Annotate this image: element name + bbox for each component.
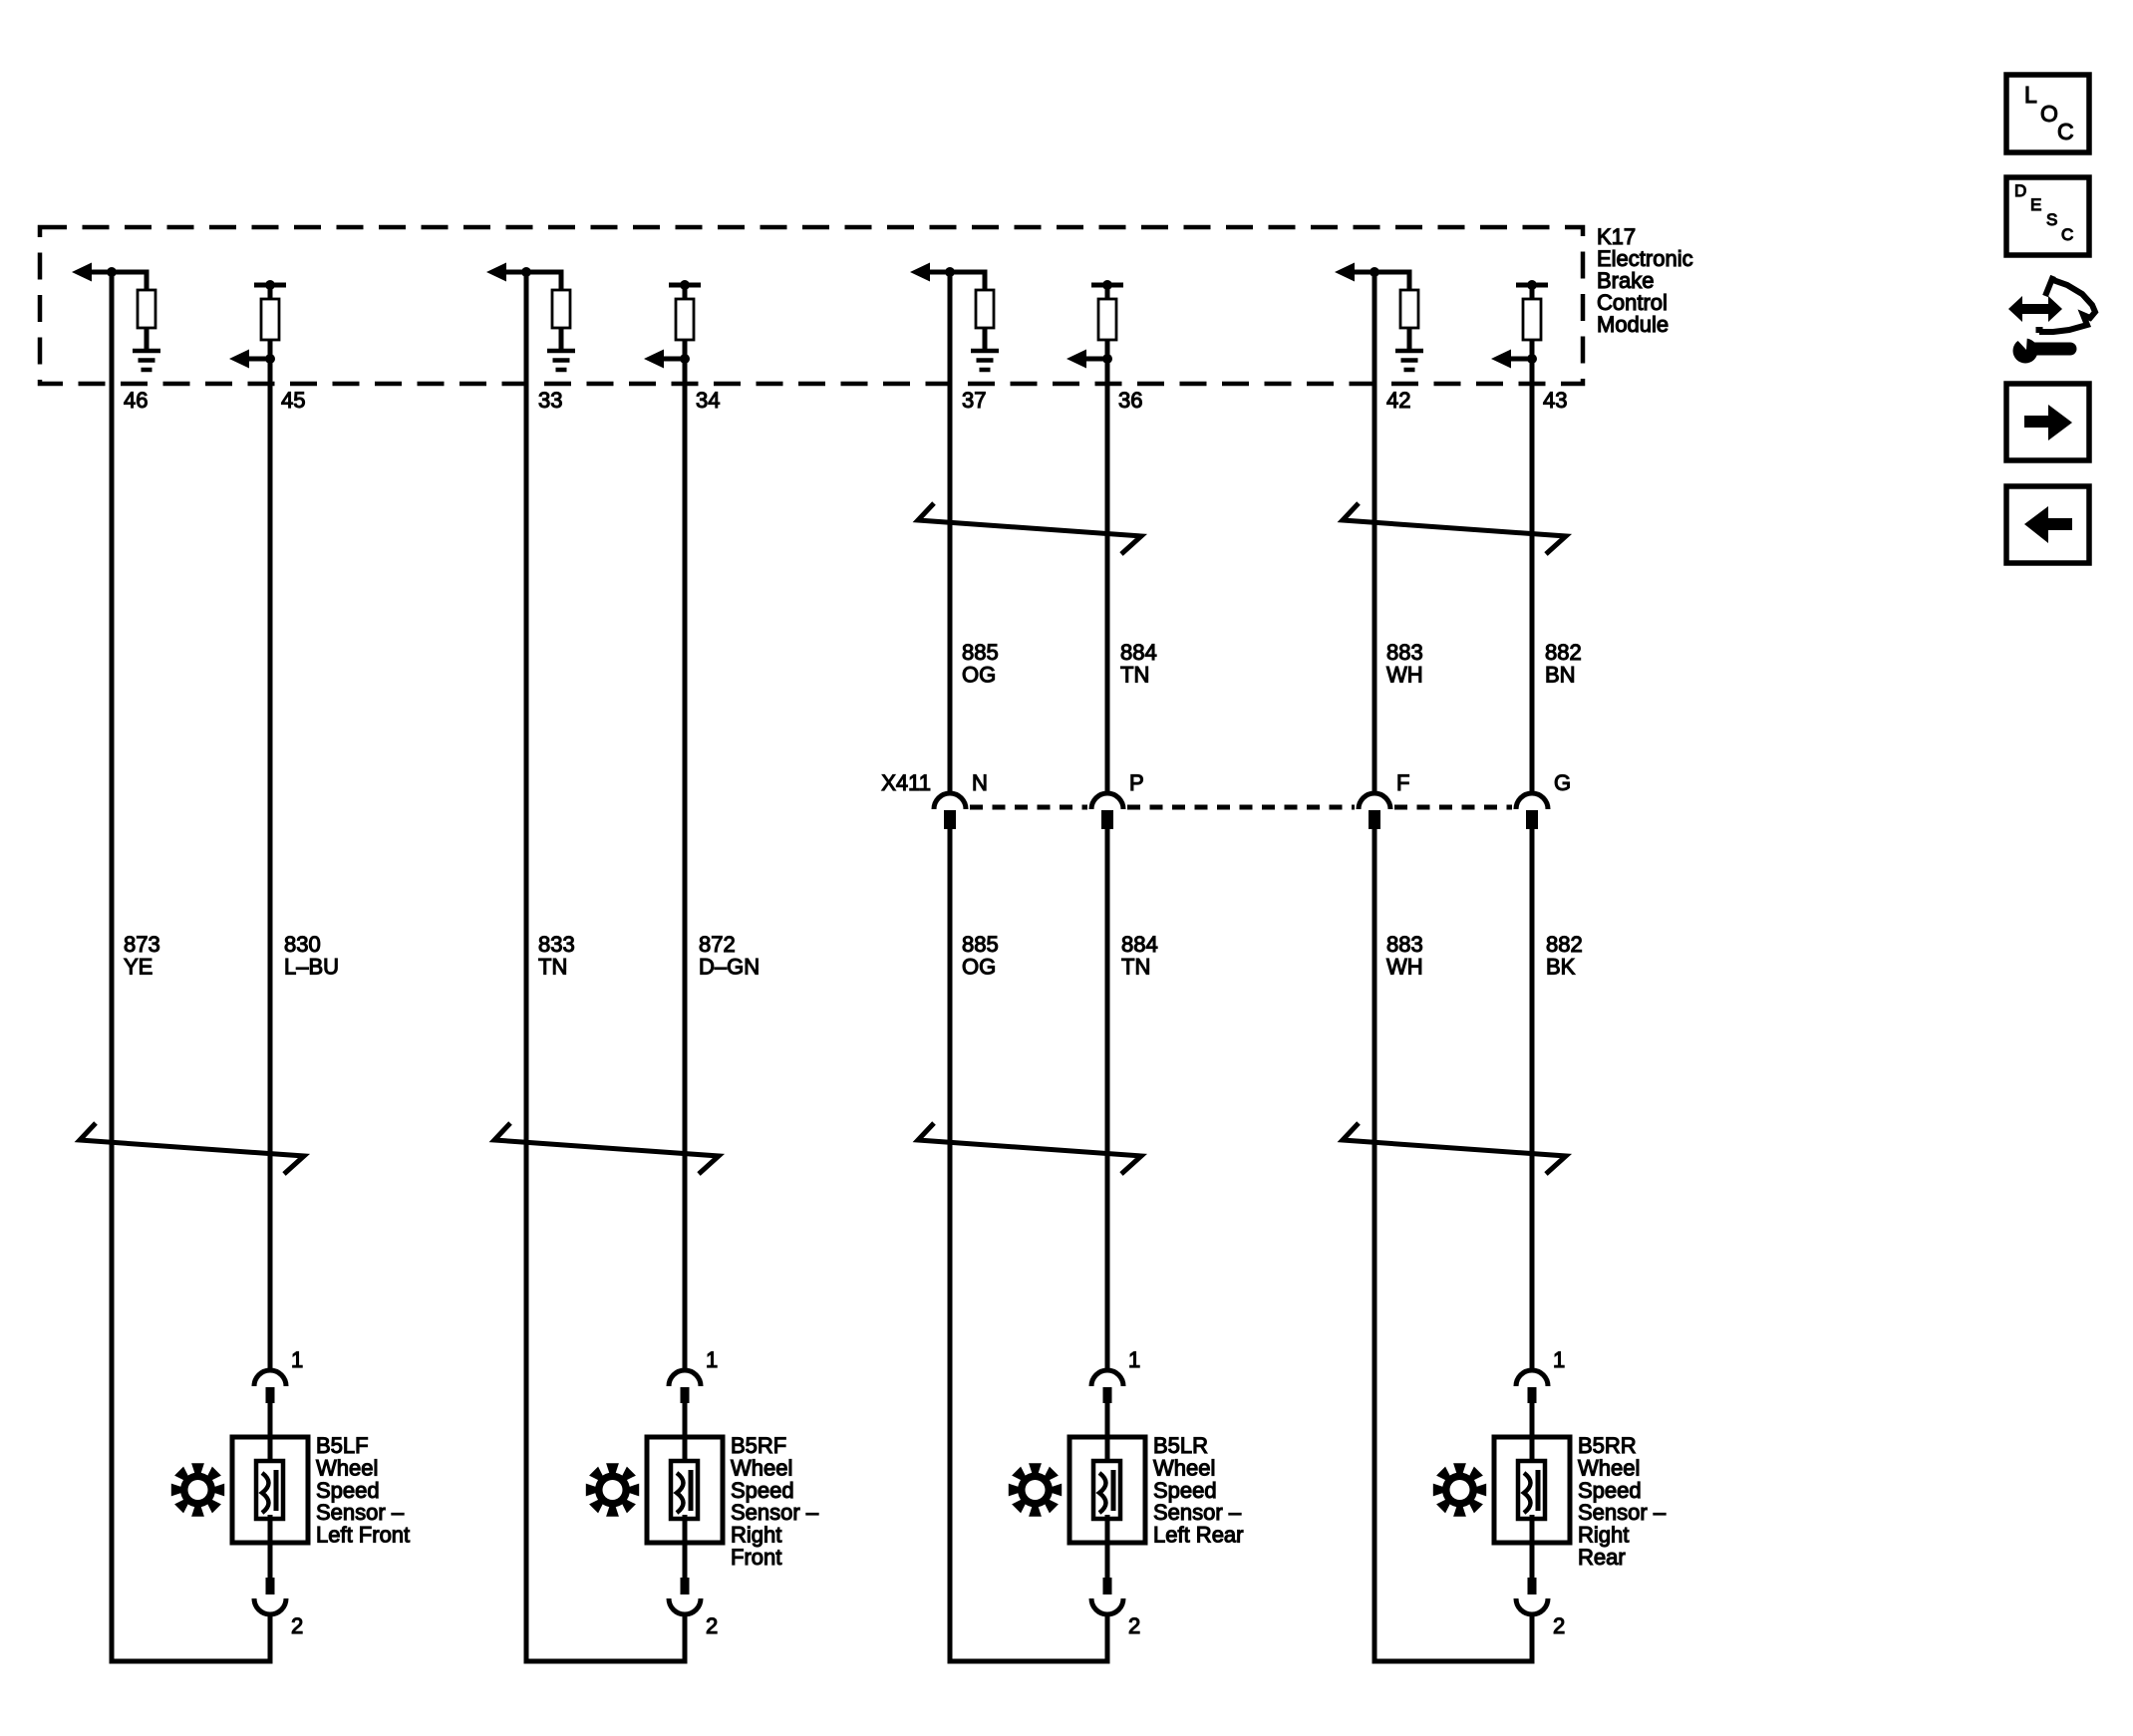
svg-text:Right: Right [731,1523,781,1548]
connector pin 1 of B5RR [1516,1370,1548,1403]
svg-text:2: 2 [1128,1613,1140,1638]
wire pin2 down B5RR [1530,1612,1535,1661]
signal arrow out, pin 33 [486,263,526,282]
twisted-pair mark (lower) [1343,1123,1566,1174]
wire to resistor, pin 42 branch [1374,272,1409,290]
wire 884 TN upper segment (pin 36 to X411) [1105,359,1110,794]
junction dot pin 36 [1102,354,1112,364]
twisted-pair mark (upper) [1343,503,1566,554]
svg-text:YE: YE [124,955,152,980]
sensor B5RR box [1494,1437,1570,1543]
pin label 2 of B5LR [1128,1613,1140,1638]
electronic brake control module K17 dashed box [40,227,1583,384]
wire sensor to pin2 B5LF [268,1515,273,1578]
svg-text:1: 1 [291,1347,303,1372]
svg-text:Wheel: Wheel [1153,1455,1215,1480]
junction dot pin 43 [1527,354,1537,364]
wire label 884 TN (lower) [1121,932,1158,980]
resistor R37 [976,290,994,328]
signal arrow out, pin 46 [72,263,112,282]
sensor label B5LF [316,1433,410,1548]
svg-text:O: O [2040,101,2058,127]
signal arrow out, pin 42 [1335,263,1374,282]
sensor element of B5LR [1093,1461,1120,1519]
wire pin2 down B5LR [1105,1612,1110,1661]
pin number 42 [1386,388,1410,413]
connector pin 2 of B5LR [1091,1578,1123,1614]
pin label 2 of B5LF [291,1613,303,1638]
pin label 1 of B5LF [291,1347,303,1372]
bottom return wire of B5LR [948,1659,1110,1664]
pin number 43 [1543,388,1567,413]
svg-text:2: 2 [706,1613,718,1638]
pin number 34 [696,388,720,413]
wire terminal to resistor, pin 34 branch [683,285,688,299]
wire sensor to pin2 B5RR [1530,1515,1535,1578]
ground (pin 46 branch) [133,351,160,370]
connector X411 terminal G [1516,793,1548,829]
signal arrow in, pin 45 [229,350,270,369]
signal arrow in, pin 43 [1491,350,1532,369]
wire terminal to resistor, pin 43 branch [1530,285,1535,299]
wire pin2 down B5LF [268,1612,273,1661]
wire 833 TN (pin 33 to sensor loop) [524,272,529,1664]
wire 884 TN lower segment (X411 to sensor) [1105,829,1110,1372]
pin number 37 [962,388,986,413]
wire terminal to resistor, pin 36 branch [1105,285,1110,299]
wire 882 BK upper segment (pin 43 to X411) [1530,359,1535,794]
wire label 872 D–GN (lower) [699,932,760,980]
svg-text:TN: TN [1120,663,1149,688]
svg-text:45: 45 [281,388,305,413]
bottom return wire of B5RR [1372,1659,1535,1664]
icon arrow left box [2006,486,2089,563]
connector X411 terminal P [1091,793,1123,829]
wire pin1 to sensor B5RF [683,1402,688,1465]
svg-text:Front: Front [731,1545,781,1570]
svg-text:OG: OG [962,663,996,688]
gear icon of B5RF [586,1463,639,1516]
wire 872 D–GN (pin 34 to sensor) [683,359,688,1372]
svg-text:B5LF: B5LF [316,1433,369,1458]
wire pin2 down B5RF [683,1612,688,1661]
pin number 46 [124,388,148,413]
wire 885 OG lower segment (X411 to sensor loop) [948,829,953,1664]
svg-text:C: C [2057,119,2074,145]
wire resistor to ground, pin 33 branch [559,328,564,351]
module K17 label [1597,224,1693,337]
svg-text:WH: WH [1386,955,1423,980]
wire resistor to ground, pin 42 branch [1407,328,1412,351]
svg-text:S: S [2046,210,2057,229]
wire resistor to junction, pin 36 branch [1105,340,1110,359]
sensor element of B5RF [671,1461,698,1519]
junction dot pin 33 [521,267,531,277]
connector pin 2 of B5LF [254,1578,286,1614]
svg-text:G: G [1554,770,1571,795]
svg-text:F: F [1396,770,1409,795]
icon arrow right box [2006,384,2089,460]
wire pin1 to sensor B5RR [1530,1402,1535,1465]
wire terminal to resistor, pin 45 branch [268,285,273,299]
pin number 36 [1118,388,1142,413]
sensor element of B5RR [1518,1461,1545,1519]
signal arrow in, pin 34 [644,350,685,369]
resistor R33 [552,290,570,328]
svg-text:883: 883 [1386,640,1423,665]
twisted-pair mark (upper) [918,503,1141,554]
resistor R45 [261,299,279,340]
svg-text:C: C [2061,225,2073,244]
svg-text:Right: Right [1578,1523,1629,1548]
wire 882 BK lower segment (X411 to sensor) [1530,829,1535,1372]
connector X411 terminal F [1359,793,1390,829]
pin label 1 of B5LR [1128,1347,1140,1372]
svg-text:Sensor –: Sensor – [316,1500,405,1525]
terminal bar pin 36 branch [1091,280,1123,290]
svg-text:36: 36 [1118,388,1142,413]
wire to resistor, pin 46 branch [112,272,147,290]
svg-text:882: 882 [1545,640,1582,665]
wire label 885 OG (lower) [962,932,999,980]
svg-text:D: D [2014,181,2026,200]
twisted-pair mark (lower) [80,1123,304,1174]
twisted-pair mark (lower) [918,1123,1141,1174]
svg-text:P: P [1129,770,1144,795]
wire 885 OG upper segment (pin 37 to X411) [948,272,953,794]
svg-text:B5RR: B5RR [1578,1433,1637,1458]
svg-text:Sensor –: Sensor – [1153,1500,1242,1525]
svg-text:885: 885 [962,932,999,957]
svg-text:Wheel: Wheel [731,1455,792,1480]
pin label 1 of B5RR [1553,1347,1565,1372]
X411 harness dashed link N-P [970,805,1087,810]
svg-text:TN: TN [538,955,567,980]
svg-text:N: N [972,770,988,795]
resistor R34 [676,299,694,340]
svg-text:884: 884 [1121,932,1158,957]
svg-text:885: 885 [962,640,999,665]
connector pin 1 of B5LR [1091,1370,1123,1403]
pin number 45 [281,388,305,413]
svg-text:E: E [2030,195,2041,214]
gear icon of B5LR [1009,1463,1062,1516]
svg-text:Module: Module [1597,312,1669,337]
gear icon of B5LF [171,1463,224,1516]
svg-text:37: 37 [962,388,986,413]
wire to resistor, pin 37 branch [950,272,985,290]
connector label X411 [881,770,931,795]
terminal bar pin 43 branch [1516,280,1548,290]
wire sensor to pin2 B5RF [683,1515,688,1578]
wire label 883 WH (lower) [1386,932,1423,980]
svg-text:46: 46 [124,388,148,413]
sensor B5LR box [1069,1437,1145,1543]
terminal bar pin 34 branch [669,280,701,290]
wire 873 YE (pin 46 to sensor loop) [110,272,115,1664]
svg-text:1: 1 [706,1347,718,1372]
wire label 873 YE (lower) [124,932,160,980]
connector pin 1 of B5LF [254,1370,286,1403]
svg-text:1: 1 [1553,1347,1565,1372]
wire resistor to ground, pin 37 branch [983,328,988,351]
resistor R46 [138,290,155,328]
resistor R42 [1400,290,1418,328]
svg-text:Left Rear: Left Rear [1153,1523,1244,1548]
svg-text:42: 42 [1386,388,1410,413]
junction dot pin 45 [265,354,275,364]
sensor label B5RF [731,1433,819,1570]
twisted-pair mark (lower) [494,1123,719,1174]
terminal label N [972,770,988,795]
svg-text:Speed: Speed [1578,1478,1642,1503]
svg-text:Left Front: Left Front [316,1523,410,1548]
wire 830 L–BU (pin 45 to sensor) [268,359,273,1372]
svg-text:873: 873 [124,932,160,957]
pin label 2 of B5RF [706,1613,718,1638]
terminal label G [1554,770,1571,795]
wire label 882 BN (upper) [1545,640,1582,688]
wire label 883 WH (upper) [1386,640,1423,688]
svg-text:Rear: Rear [1578,1545,1626,1570]
svg-text:Wheel: Wheel [316,1455,378,1480]
svg-text:Sensor –: Sensor – [1578,1500,1667,1525]
sensor label B5LR [1153,1433,1244,1548]
wire label 885 OG (upper) [962,640,999,688]
svg-text:1: 1 [1128,1347,1140,1372]
wire label 830 L–BU (lower) [284,932,339,980]
wire pin1 to sensor B5LF [268,1402,273,1465]
wire label 833 TN (lower) [538,932,575,980]
signal arrow out, pin 37 [910,263,950,282]
icon LOC box [2006,75,2089,152]
svg-text:883: 883 [1386,932,1423,957]
wire label 884 TN (upper) [1120,640,1157,688]
wire sensor to pin2 B5LR [1105,1515,1110,1578]
gear icon of B5RR [1433,1463,1486,1516]
X411 harness dashed link F-G [1394,805,1512,810]
icon DESC box [2006,177,2089,255]
sensor label B5RR [1578,1433,1667,1570]
connector pin 2 of B5RR [1516,1578,1548,1614]
svg-text:D–GN: D–GN [699,955,760,980]
svg-text:Sensor –: Sensor – [731,1500,819,1525]
wire 883 WH lower segment (X411 to sensor loop) [1372,829,1377,1664]
wire resistor to ground, pin 46 branch [145,328,150,351]
wire resistor to junction, pin 43 branch [1530,340,1535,359]
bottom return wire of B5LF [110,1659,273,1664]
sensor B5LF box [232,1437,308,1543]
X411 harness dashed link P-F [1127,805,1355,810]
junction dot pin 37 [945,267,955,277]
svg-text:WH: WH [1386,663,1423,688]
svg-text:Speed: Speed [1153,1478,1217,1503]
svg-text:Speed: Speed [731,1478,794,1503]
svg-text:43: 43 [1543,388,1567,413]
connector X411 terminal N [934,793,966,829]
svg-text:OG: OG [962,955,996,980]
svg-text:884: 884 [1120,640,1157,665]
junction dot pin 46 [107,267,117,277]
bottom return wire of B5RF [524,1659,688,1664]
junction dot pin 42 [1370,267,1379,277]
resistor R36 [1098,299,1116,340]
ground (pin 33 branch) [547,351,575,370]
svg-text:L–BU: L–BU [284,955,339,980]
resistor R43 [1523,299,1541,340]
junction dot pin 34 [680,354,690,364]
terminal bar pin 45 branch [254,280,286,290]
terminal label P [1129,770,1144,795]
signal arrow in, pin 36 [1066,350,1107,369]
svg-text:Speed: Speed [316,1478,380,1503]
svg-text:L: L [2024,82,2037,108]
wire resistor to junction, pin 34 branch [683,340,688,359]
terminal label F [1396,770,1409,795]
wire to resistor, pin 33 branch [526,272,561,290]
sensor element of B5LF [256,1461,283,1519]
pin label 1 of B5RF [706,1347,718,1372]
svg-text:2: 2 [1553,1613,1565,1638]
svg-text:X411: X411 [881,770,931,795]
svg-text:BN: BN [1545,663,1576,688]
svg-text:833: 833 [538,932,575,957]
svg-text:882: 882 [1546,932,1583,957]
ground (pin 42 branch) [1395,351,1423,370]
connector pin 1 of B5RF [669,1370,701,1403]
svg-text:34: 34 [696,388,720,413]
svg-text:Wheel: Wheel [1578,1455,1640,1480]
wire 883 WH upper segment (pin 42 to X411) [1372,272,1377,794]
pin label 2 of B5RR [1553,1613,1565,1638]
svg-text:2: 2 [291,1613,303,1638]
ground (pin 37 branch) [971,351,999,370]
wire pin1 to sensor B5LR [1105,1402,1110,1465]
svg-text:BK: BK [1546,955,1576,980]
svg-text:830: 830 [284,932,321,957]
svg-text:B5LR: B5LR [1153,1433,1208,1458]
connector pin 2 of B5RF [669,1578,701,1614]
sensor B5RF box [647,1437,723,1543]
svg-text:TN: TN [1121,955,1150,980]
icon adjust/wrench pictogram [2008,276,2095,364]
svg-text:33: 33 [538,388,562,413]
wire resistor to junction, pin 45 branch [268,340,273,359]
svg-text:872: 872 [699,932,736,957]
wire label 882 BK (lower) [1546,932,1583,980]
svg-text:B5RF: B5RF [731,1433,786,1458]
pin number 33 [538,388,562,413]
